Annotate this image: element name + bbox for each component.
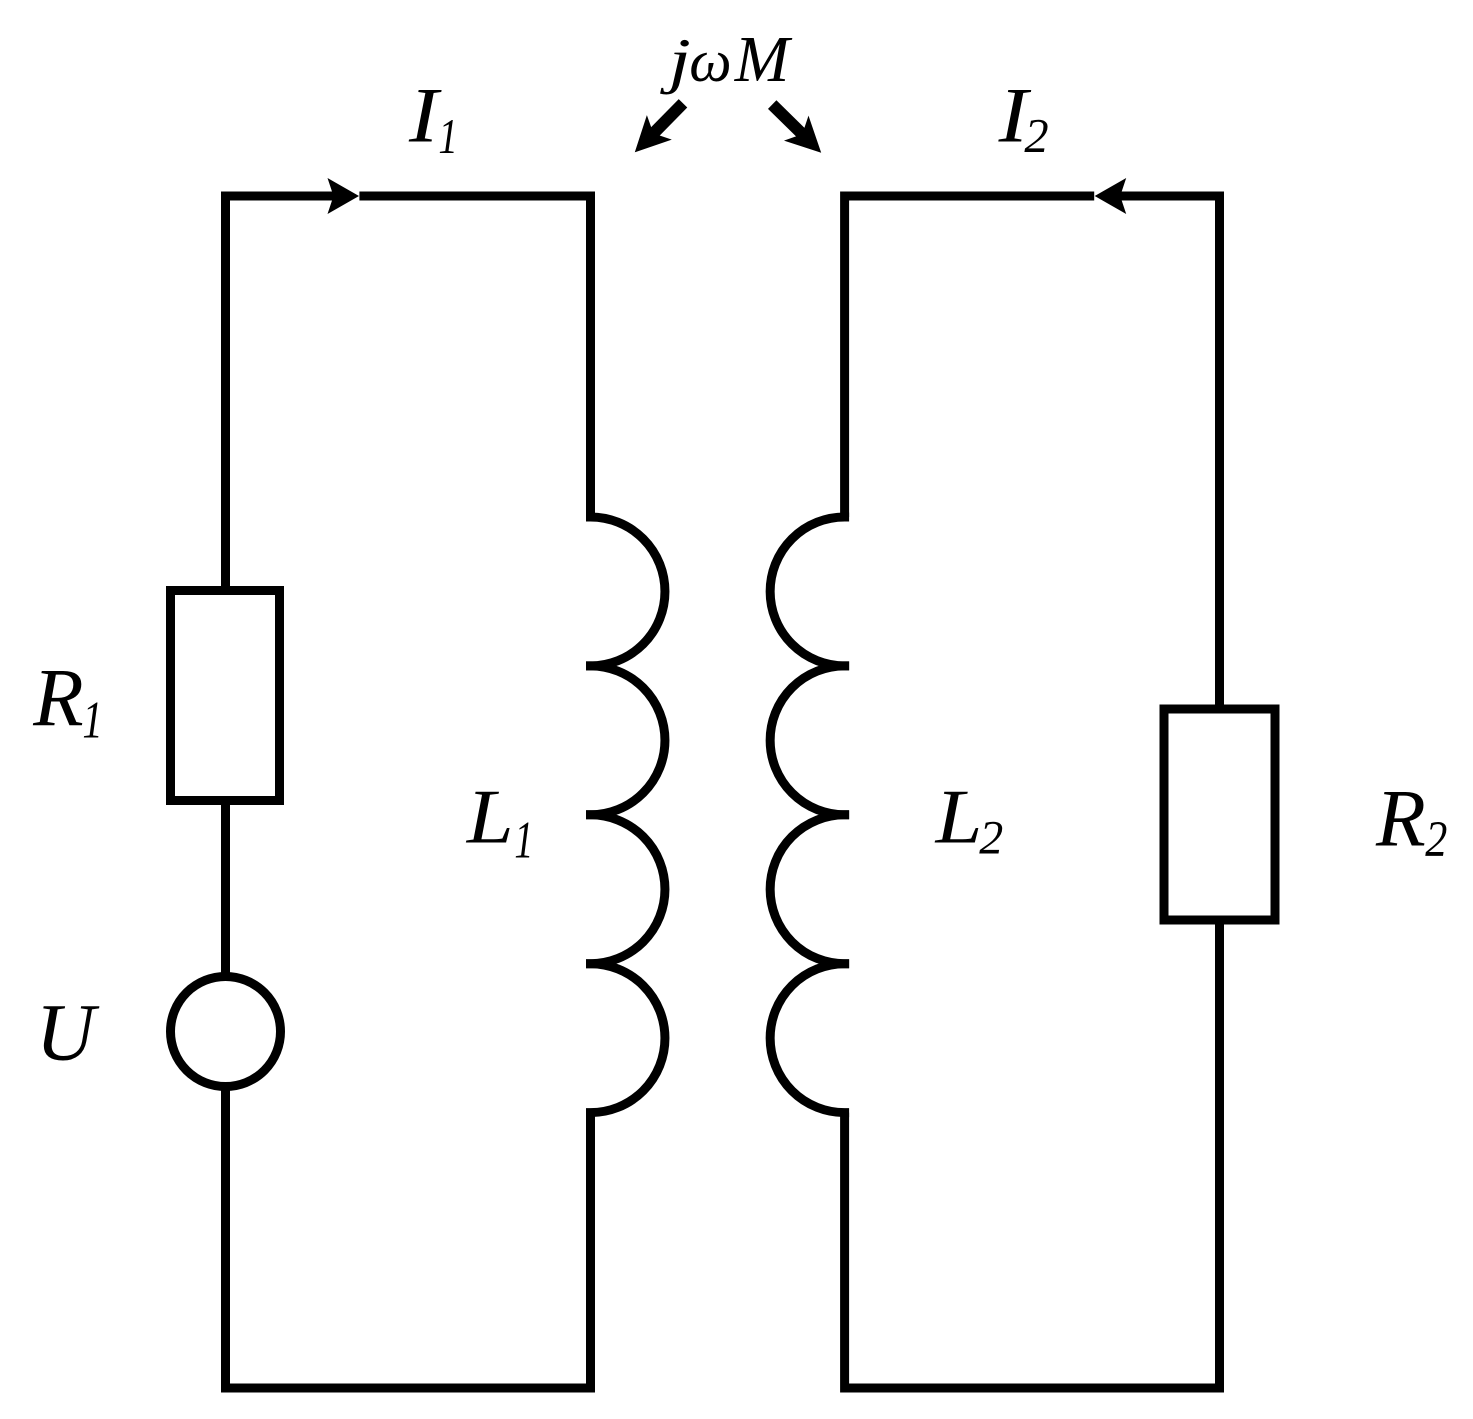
label R1 — [32, 651, 103, 749]
label I2 — [997, 72, 1048, 163]
wire: below U, left loop bottom wire, up to L1 bottom — [226, 1086, 591, 1388]
resistor R2 — [1164, 709, 1275, 920]
svg-text:2: 2 — [1024, 110, 1048, 163]
resistor R1 — [171, 591, 280, 801]
svg-text:2: 2 — [1425, 812, 1447, 868]
inductor L2 — [770, 517, 844, 1113]
svg-text:L: L — [466, 773, 514, 859]
svg-text:1: 1 — [82, 692, 102, 750]
svg-text:1: 1 — [438, 108, 458, 164]
current direction arrow for I1 — [328, 178, 360, 214]
current direction arrow for I2 — [1095, 178, 1127, 214]
inductor L1 — [591, 517, 665, 1113]
wire: right loop top wire (right part) and right vertical down to R2 — [1106, 196, 1220, 709]
label R2 — [1375, 772, 1447, 868]
label jwM (mutual inductance) — [660, 24, 793, 96]
svg-text:R: R — [1375, 772, 1426, 863]
svg-text:L: L — [935, 773, 983, 859]
svg-text:R: R — [32, 651, 83, 743]
svg-text:ω: ω — [689, 28, 731, 94]
label I1 — [408, 71, 458, 163]
wire: left loop top wire (left part) and left vertical down to R1 — [226, 196, 349, 591]
wire: R2 down, right loop bottom wire, up to L2 bottom — [845, 920, 1220, 1388]
wire: left loop top wire (right part) and right vertical down to L1 — [359, 196, 590, 517]
wire: right loop left vertical down to L2, top wire (left part) — [845, 196, 1095, 517]
wire: R1 to U — [221, 801, 230, 978]
mutual coupling arrow right (jwM to L2) — [760, 92, 834, 165]
label L1 — [466, 773, 534, 869]
svg-text:U: U — [36, 987, 100, 1078]
source U — [171, 977, 281, 1087]
mutual coupling arrow left (jwM to L1) — [622, 91, 695, 165]
svg-text:I: I — [408, 71, 443, 158]
label L2 — [935, 773, 1004, 864]
svg-text:M: M — [734, 24, 793, 96]
svg-text:2: 2 — [979, 811, 1003, 864]
svg-text:1: 1 — [514, 811, 533, 869]
